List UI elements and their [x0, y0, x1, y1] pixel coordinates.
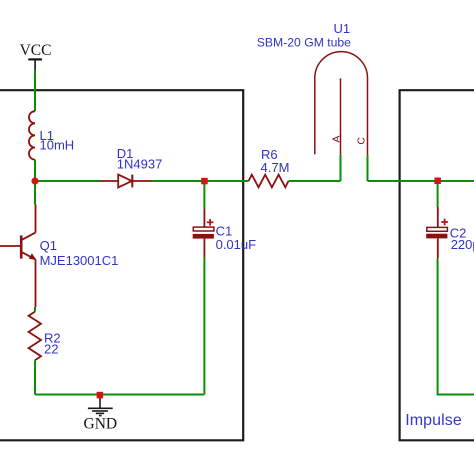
- ground symbol GND: [88, 398, 113, 416]
- wire C1 down to bottom rail: [203, 258, 205, 395]
- wire D1 cathode to junction B: [152, 180, 204, 182]
- svg-text:1N4937: 1N4937: [117, 157, 163, 172]
- svg-text:10mH: 10mH: [40, 138, 75, 153]
- wire R6 to tube anode pin: [289, 180, 341, 182]
- junction A at L1/D1/Q1: [31, 177, 38, 184]
- svg-text:C: C: [355, 137, 367, 145]
- svg-text:Q1: Q1: [40, 238, 57, 253]
- wire junction C2 to right edge: [438, 180, 474, 182]
- wire C2 down and to right edge: [438, 258, 474, 394]
- resistor R6: [249, 175, 289, 188]
- label D1 value 1N4937: [117, 146, 163, 172]
- junction at C2: [434, 178, 441, 185]
- svg-text:Impulse: Impulse: [405, 412, 462, 429]
- label R2 value 22: [44, 331, 61, 357]
- svg-text:220p: 220p: [451, 237, 474, 252]
- resistor R2: [29, 312, 41, 361]
- wire bottom rail: [35, 394, 204, 396]
- label U1 SBM-20 GM tube: [257, 21, 351, 50]
- svg-text:GND: GND: [84, 416, 118, 433]
- capacitor C1: [193, 209, 214, 258]
- GM tube U1: [315, 52, 368, 155]
- wire junction A down to Q1 collector: [34, 181, 36, 205]
- junction at GND: [97, 392, 104, 399]
- junction B at D1/C1/R6: [201, 178, 208, 185]
- svg-text:A: A: [330, 136, 342, 143]
- wire junction B down to C1: [203, 181, 205, 209]
- power flag VCC: [20, 42, 52, 71]
- wire junction A to D1 anode: [35, 180, 100, 182]
- svg-text:0.01uF: 0.01uF: [216, 237, 257, 252]
- wire junction down to C2: [437, 181, 439, 207]
- enclosure box right: [400, 90, 474, 440]
- wire R2 to bottom rail: [34, 360, 36, 394]
- label C1 value 0.01uF: [216, 223, 257, 251]
- label R6 value 4.7M: [261, 147, 290, 175]
- capacitor C2: [426, 207, 448, 258]
- label C2 value 220p: [450, 225, 474, 252]
- label Q1 value MJE13001C1: [40, 238, 119, 268]
- wire junction B to R6: [204, 180, 248, 182]
- label L1 value 10mH: [40, 128, 75, 153]
- transistor Q1: [0, 205, 36, 308]
- tube U1 pin A: [340, 155, 342, 181]
- svg-text:U1: U1: [334, 21, 351, 36]
- wire L1 to junction A: [34, 160, 36, 181]
- wire Q1 emitter to R2: [34, 307, 36, 312]
- svg-text:MJE13001C1: MJE13001C1: [40, 253, 119, 268]
- inductor L1: [29, 111, 35, 159]
- tube U1 pin C: [367, 155, 369, 181]
- enclosure box left: [0, 90, 243, 440]
- svg-text:22: 22: [44, 342, 58, 357]
- wire VCC to L1: [34, 71, 36, 111]
- wire tube C to junction C2: [368, 180, 438, 182]
- svg-text:4.7M: 4.7M: [261, 160, 290, 175]
- svg-text:VCC: VCC: [20, 42, 52, 59]
- svg-text:SBM-20 GM tube: SBM-20 GM tube: [257, 36, 351, 50]
- diode D1: [100, 175, 153, 188]
